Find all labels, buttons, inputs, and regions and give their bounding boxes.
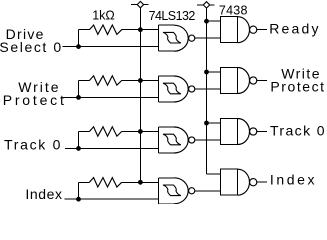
svg-text:Ready: Ready: [269, 21, 320, 37]
svg-text:Protect: Protect: [270, 79, 325, 95]
svg-text:Select 0: Select 0: [0, 39, 63, 55]
svg-text:Protect: Protect: [3, 92, 67, 108]
svg-text:Track 0: Track 0: [270, 122, 326, 138]
svg-text:1kΩ: 1kΩ: [92, 9, 115, 23]
svg-text:Index: Index: [270, 172, 317, 188]
svg-text:Track 0: Track 0: [4, 137, 62, 153]
svg-text:7438: 7438: [219, 4, 248, 18]
svg-text:74LS132: 74LS132: [149, 9, 196, 23]
svg-text:Index: Index: [25, 186, 62, 202]
